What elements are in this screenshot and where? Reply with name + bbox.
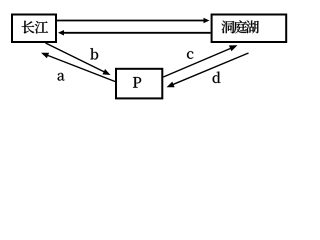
label c <box>187 51 193 59</box>
arrow c: P to Dongting Lake <box>163 45 237 77</box>
label Dongting Lake text <box>221 20 258 33</box>
label P text <box>133 77 141 88</box>
box Changjiang (Yangtze River) <box>12 15 56 43</box>
arrow: Dongting Lake to Changjiang (return wire) <box>58 30 211 36</box>
diagram: Yangtze River / Dongting Lake / P exchange flow <box>0 0 300 104</box>
box Dongting Lake <box>212 15 287 43</box>
label a <box>58 73 65 81</box>
arrow: Changjiang to Dongting Lake (top wire) <box>56 18 210 23</box>
arrow a: P to Changjiang <box>41 53 115 82</box>
arrow b: Changjiang to P <box>46 43 111 75</box>
arrow d: Dongting Lake to P <box>167 53 249 87</box>
label d <box>213 72 221 83</box>
box P <box>116 69 162 99</box>
label b <box>90 48 98 59</box>
label Changjiang text <box>22 21 48 34</box>
